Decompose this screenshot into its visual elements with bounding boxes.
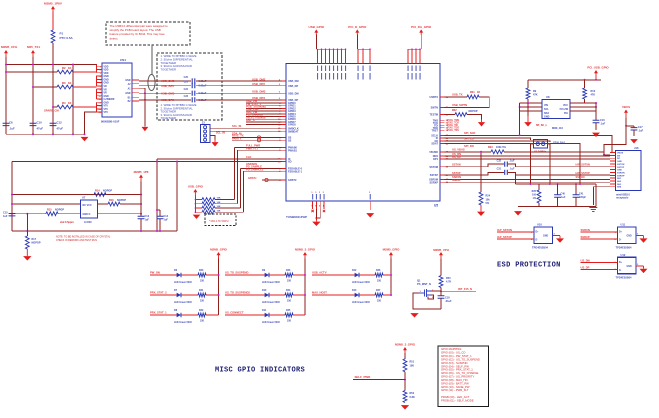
wire gpio (246, 116, 282, 118)
wire U7 row2 right (98, 213, 142, 215)
resistor R2 1K (6, 71, 57, 73)
wire PARITY (232, 139, 282, 141)
wire (604, 118, 626, 155)
wire (206, 314, 219, 316)
wire (428, 295, 434, 299)
connector J3 header (200, 125, 209, 143)
wire USB pair USB_DM2 (139, 80, 191, 82)
ground (81, 137, 89, 141)
resistor R16 NOPOP (108, 202, 120, 206)
wire header pin2 long (209, 129, 211, 131)
svg-text:1uF: 1uF (3, 215, 8, 218)
svg-text:USB_DP2: USB_DP2 (161, 84, 174, 88)
svg-text:GPIO MAPPING:: GPIO MAPPING: (441, 347, 462, 351)
svg-text:PWAB1: PWAB1 (288, 149, 298, 152)
svg-text:M2M5_VPH: M2M5_VPH (433, 248, 449, 252)
wire top bus (408, 48, 422, 50)
svg-text:C12: C12 (57, 121, 63, 125)
svg-text:SSTXM: SSTXM (429, 166, 438, 169)
pin stub (440, 151, 445, 153)
CN1 pin L10 (97, 95, 103, 97)
svg-text:LED Green 0603: LED Green 0603 (352, 282, 370, 284)
ground (480, 205, 482, 212)
svg-text:TOGETHER: TOGETHER (161, 116, 177, 120)
svg-text:IAP_SSTXN: IAP_SSTXN (576, 163, 591, 167)
svg-text:PRGB (00) - LED_ACT: PRGB (00) - LED_ACT (441, 395, 470, 399)
pin stub (440, 119, 445, 121)
wire US_DP (581, 269, 618, 271)
pin stub (282, 113, 287, 115)
wire (404, 372, 406, 391)
capacitor C21 0.01uF (192, 83, 195, 88)
wire vertical net3 (52, 65, 54, 135)
resistor R44 330 (285, 293, 293, 297)
wire gpio (246, 107, 282, 109)
resistor R41 330 (198, 293, 206, 297)
wire shield to chassis (593, 187, 610, 205)
wire (440, 288, 442, 292)
svg-text:USB_DP2: USB_DP2 (252, 82, 265, 86)
svg-text:GPIO (08) - MAX_HO: GPIO (08) - MAX_HO (441, 378, 468, 382)
resistor R22 NOPOP (455, 113, 467, 117)
svg-text:M2M5_3_GPIO: M2M5_3_GPIO (395, 342, 416, 346)
svg-text:PRX_STAT_2: PRX_STAT_2 (150, 291, 167, 295)
svg-text:330: 330 (200, 300, 205, 303)
svg-text:M2M5_3_GPIO: M2M5_3_GPIO (295, 248, 316, 252)
capacitor C13 1uF (138, 216, 145, 218)
svg-text:CLK: CLK (246, 155, 251, 159)
wire (432, 290, 442, 292)
svg-text:6.8K: 6.8K (410, 396, 415, 399)
svg-text:0.2S8ERR: 0.2S8ERR (104, 99, 115, 101)
svg-text:LED Green 0603: LED Green 0603 (262, 282, 280, 284)
svg-text:M25_TX1: M25_TX1 (27, 45, 40, 49)
svg-text:ESD PROTECTION: ESD PROTECTION (497, 262, 561, 270)
svg-text:.1uF: .1uF (510, 168, 515, 171)
ground (630, 139, 638, 143)
wire (527, 103, 529, 116)
svg-text:SPARE_CM: SPARE_CM (44, 109, 59, 113)
capacitor series SSTXM (505, 162, 508, 167)
led D7 (177, 293, 181, 297)
pin stub (282, 137, 287, 139)
wire (553, 235, 561, 237)
svg-text:330: 330 (377, 280, 382, 283)
connector J16 pin 1 (610, 152, 616, 154)
svg-text:VTU: VTU (104, 106, 109, 108)
resistor R46 330 (375, 273, 383, 277)
chassis ground (589, 208, 597, 212)
svg-text:VTU: VTU (104, 112, 109, 114)
svg-text:SSTXP: SSTXP (430, 174, 439, 177)
resistor R15 NOPOP (46, 212, 58, 216)
pin stub (282, 110, 287, 112)
ground (142, 127, 149, 131)
svg-text:PW_ON: PW_ON (150, 271, 160, 275)
svg-text:DN: DN (617, 155, 621, 157)
wire vertical net1 (5, 57, 7, 134)
ic U10 TPD4E02B04 (534, 227, 553, 244)
svg-text:SCL: SCL (544, 108, 549, 111)
resistor R17 NOPOP (25, 236, 29, 249)
svg-text:SDA: SDA (544, 112, 549, 115)
svg-text:R41: R41 (199, 289, 204, 292)
wire rail right leg (595, 184, 597, 207)
wire row2 (12, 203, 81, 205)
svg-text:NOPOP: NOPOP (32, 242, 41, 245)
CN1 pin L14 (97, 108, 103, 110)
svg-text:VR: VR (104, 93, 108, 95)
wire USB pair USB_DM3 (139, 92, 191, 94)
wire top bus (357, 48, 370, 50)
wire CN1 pin15 branch (85, 112, 97, 134)
wire header pin3 (210, 136, 215, 140)
svg-text:LED Green 0603: LED Green 0603 (174, 322, 192, 324)
wire (508, 172, 610, 175)
svg-text:VDD: VDD (104, 66, 109, 68)
led D10 (265, 293, 269, 297)
svg-text:.1uF: .1uF (9, 127, 15, 131)
ground (401, 405, 409, 409)
svg-text:USB_ACTV: USB_ACTV (312, 271, 327, 275)
svg-text:SMBDAT: SMBDAT (288, 130, 299, 133)
resistor P1 PTC 0.5A (51, 30, 55, 43)
callout line (151, 45, 153, 75)
ic U7 oscillator (81, 200, 98, 218)
wire USB pair USB_DP2 (139, 85, 191, 87)
wire CN1 left pin group bus (96, 65, 98, 73)
svg-text:VBUSD: VBUSD (429, 151, 438, 154)
led D8 (177, 313, 181, 317)
svg-text:330: 330 (200, 320, 205, 323)
svg-text:VTU: VTU (104, 109, 109, 111)
wire long osc A (157, 158, 282, 160)
wire US_DN (581, 262, 618, 264)
svg-text:R15: R15 (47, 209, 52, 212)
svg-text:U7: U7 (82, 196, 86, 200)
wire (636, 265, 644, 267)
pin stub (440, 142, 445, 144)
svg-text:R46: R46 (376, 269, 381, 272)
wire riser (243, 171, 245, 212)
svg-text:SSTXN: SSTXN (617, 164, 625, 166)
svg-text:0.01uF: 0.01uF (199, 80, 207, 83)
svg-text:XO: XO (288, 161, 292, 164)
CN1 pin L7 (97, 85, 103, 87)
pin stub (282, 85, 287, 87)
svg-text:0.01uF: 0.01uF (199, 92, 207, 95)
svg-text:Q1: Q1 (417, 278, 421, 282)
svg-text:D13: D13 (352, 289, 357, 292)
wire (196, 99, 282, 101)
svg-text:SSRXP: SSRXP (581, 235, 590, 239)
svg-text:C31: C31 (497, 168, 502, 171)
pin stub (282, 107, 287, 109)
svg-text:IAP_SSTXP: IAP_SSTXP (497, 235, 512, 239)
svg-text:.01uF: .01uF (445, 300, 452, 303)
pin stub (282, 121, 287, 123)
svg-text:U11: U11 (621, 223, 626, 227)
wire (445, 97, 490, 107)
svg-text:VDD: VDD (104, 70, 109, 72)
wire (595, 123, 597, 130)
resistor R25 100 (538, 184, 540, 190)
no-connect circle (265, 178, 268, 181)
wire RATE_TX (232, 137, 282, 139)
pin stub (440, 137, 445, 139)
svg-text:US_DP: US_DP (581, 265, 590, 269)
svg-text:R42: R42 (199, 309, 204, 312)
wire bottom bus (6, 133, 85, 135)
wire (269, 274, 285, 276)
pin stub (440, 155, 445, 157)
pin stub (440, 106, 445, 108)
wire (383, 294, 391, 296)
svg-text:1K: 1K (68, 101, 71, 105)
wire gpio (246, 121, 282, 123)
wire (293, 274, 305, 276)
CN1 pin L9 (97, 91, 103, 93)
wire (196, 85, 282, 87)
ic U5 bottom pin thermal (370, 194, 371, 200)
wire pwab (235, 147, 282, 149)
resistor R4 1K (53, 106, 57, 108)
wire pin drop (369, 49, 371, 63)
no-connect X (311, 210, 313, 212)
svg-text:SSRXN: SSRXN (617, 172, 625, 174)
svg-text:1K: 1K (68, 66, 71, 70)
wire (194, 196, 196, 214)
svg-text:CHECK IN REWORK AND TEST RUN: CHECK IN REWORK AND TEST RUN (56, 239, 97, 242)
svg-text:R51: R51 (410, 361, 415, 364)
svg-text:GPIO (09) - BATT_PW: GPIO (09) - BATT_PW (441, 381, 469, 385)
pin stub (282, 170, 287, 172)
wire pin drop (407, 49, 409, 63)
pin stub (282, 124, 287, 126)
ground (214, 140, 216, 143)
wire flag vertical (140, 182, 142, 217)
wire (315, 209, 317, 220)
svg-text:TUSB8041PHP: TUSB8041PHP (286, 215, 307, 219)
svg-text:D10: D10 (262, 289, 267, 292)
svg-text:JTAG_TRS: JTAG_TRS (447, 129, 459, 132)
wire (52, 43, 54, 65)
svg-text:GPIO (07) - US_PRIORITY: GPIO (07) - US_PRIORITY (441, 375, 474, 379)
svg-text:receptacle: receptacle (616, 197, 629, 200)
svg-text:GRSTz: GRSTz (248, 176, 257, 180)
led D9 (265, 273, 269, 277)
CN1 pin L2 (97, 68, 103, 70)
resistor R14 NOPOP (94, 193, 106, 197)
svg-text:C22: C22 (184, 88, 189, 91)
wire U8 left pins (520, 102, 542, 104)
svg-text:C10: C10 (37, 121, 43, 125)
wire (206, 274, 219, 276)
wire rail (528, 79, 601, 81)
wire riser (240, 169, 242, 209)
pin stub (440, 124, 445, 126)
pin stub (440, 178, 445, 180)
wire (440, 259, 442, 276)
svg-text:GPIO (01) - PW_STAT_1: GPIO (01) - PW_STAT_1 (441, 354, 472, 358)
svg-text:PD_SAMPLE2: PD_SAMPLE2 (246, 167, 264, 171)
svg-text:M2M5_CFG: M2M5_CFG (1, 45, 18, 49)
svg-text:SSRXP: SSRXP (617, 175, 625, 177)
wire bus (304, 259, 306, 316)
wire IAP_SSTXN (497, 231, 534, 233)
no-connect X (323, 210, 325, 212)
svg-text:US_TO_SUSPEND: US_TO_SUSPEND (225, 271, 248, 275)
svg-text:330: 330 (287, 300, 292, 303)
svg-text:TESTM: TESTM (430, 114, 438, 117)
svg-text:J16: J16 (634, 146, 639, 150)
capacitor C14 1uF (157, 209, 160, 211)
svg-text:0.01uF: 0.01uF (199, 99, 207, 102)
svg-text:SS: SS (288, 139, 292, 142)
wire U8 right pins (570, 102, 596, 104)
svg-text:D-: D- (536, 240, 539, 242)
pin stub (282, 92, 287, 94)
capacitor C15 1uF (11, 206, 13, 213)
pin stub (282, 118, 287, 120)
wire (420, 35, 422, 50)
pin stub (440, 140, 445, 142)
svg-text:47K: 47K (533, 93, 538, 96)
wire (150, 294, 177, 296)
svg-text:US_CONNECT: US_CONNECT (225, 311, 244, 315)
ic U5 TUSB8041PHP body (286, 64, 440, 202)
wire long osc B (12, 161, 282, 163)
wire (150, 274, 177, 276)
svg-text:C32: C32 (497, 160, 502, 163)
svg-text:GND: GND (125, 80, 130, 82)
wire (26, 214, 28, 236)
svg-text:SDAT: SDAT (431, 143, 438, 146)
svg-text:VCC: VCC (563, 104, 568, 107)
CN1 pin L3 (97, 72, 103, 74)
svg-text:330: 330 (287, 320, 292, 323)
wire (626, 125, 634, 127)
svg-text:PRX_STAT_1: PRX_STAT_1 (150, 311, 167, 315)
connector J16 pin 13 (610, 186, 616, 188)
wire pin drop (362, 49, 364, 63)
wire IAP_SSTXP (497, 238, 534, 240)
svg-text:U8: U8 (546, 95, 550, 99)
svg-text:IAP_SSTXN: IAP_SSTXN (497, 228, 512, 232)
svg-text:NOPOP: NOPOP (55, 209, 64, 212)
wire SSRXN (581, 231, 618, 233)
resistor R33 4.7K pull-up (195, 211, 202, 213)
svg-text:100k 5%: 100k 5% (496, 146, 507, 149)
svg-text:VIN: VIN (544, 104, 548, 107)
svg-text:GND: GND (125, 93, 130, 95)
svg-text:TRST: TRST (431, 129, 438, 132)
pin stub (282, 80, 287, 82)
pin stub (282, 116, 287, 118)
led D11 (265, 313, 269, 317)
svg-text:SSRXN: SSRXN (581, 228, 590, 232)
wire (413, 293, 441, 309)
led D6 (177, 273, 181, 277)
wire gpio (246, 118, 282, 120)
wire CN1 gnd branch (139, 88, 145, 126)
svg-text:SP_SC_L: SP_SC_L (536, 124, 548, 127)
svg-text:MISC GPIO INDICATORS: MISC GPIO INDICATORS (215, 367, 305, 375)
wire gpio (246, 105, 282, 107)
wire (269, 314, 285, 316)
resistor R31 4.7K pull-up (195, 203, 202, 205)
svg-text:R52: R52 (410, 392, 415, 395)
wire (225, 294, 265, 296)
ground (366, 213, 374, 217)
svg-text:GND: GND (543, 236, 548, 238)
wire (353, 379, 405, 381)
svg-text:GPIO (03) - SUSPND: GPIO (03) - SUSPND (441, 361, 467, 365)
svg-text:GND: GND (627, 266, 632, 268)
svg-text:USB_DM: USB_DM (288, 80, 299, 83)
svg-text:1K: 1K (68, 81, 71, 85)
wire fsdable (241, 168, 282, 170)
CN1 pin L11 (97, 98, 103, 100)
svg-text:SSTXN: SSTXN (452, 163, 461, 167)
resistor R3 1K (33, 86, 57, 88)
svg-text:INT_F15_N: INT_F15_N (458, 287, 472, 291)
wire pin drop (411, 49, 413, 63)
svg-text:SSRXN: SSRXN (576, 175, 585, 179)
wire GPS header SCL to U5 (210, 127, 282, 129)
wire pin drop (415, 49, 417, 63)
wire (120, 203, 141, 205)
svg-text:SSTXP: SSTXP (452, 171, 461, 175)
pin stub (440, 129, 445, 131)
ground (592, 133, 600, 137)
pin stub (440, 96, 445, 98)
svg-text:47uF: 47uF (37, 127, 44, 131)
svg-text:USB_DM3: USB_DM3 (161, 91, 175, 95)
wire (584, 99, 586, 103)
wire riser (237, 150, 239, 204)
svg-text:GPIO (04) - SELF_PW: GPIO (04) - SELF_PW (441, 364, 469, 368)
wire (52, 12, 54, 30)
connector J16 pin 12 (610, 183, 616, 185)
wire (636, 235, 644, 237)
pin stub (282, 149, 287, 151)
svg-text:FSDABLE-1: FSDABLE-1 (288, 170, 303, 173)
wire bottom rail (518, 206, 596, 208)
wire horizontal feed (6, 64, 97, 66)
svg-text:U12: U12 (621, 253, 626, 257)
wire (206, 294, 219, 296)
wire (527, 99, 529, 114)
svg-text:GRSTZ: GRSTZ (288, 179, 297, 182)
pin stub (440, 127, 445, 129)
wire USB pair USB_DP3 (139, 99, 191, 101)
svg-text:10k: 10k (486, 199, 491, 202)
CN1 pin L8 (97, 88, 103, 90)
wire (150, 314, 177, 316)
ground (410, 313, 418, 317)
svg-text:.1uF: .1uF (510, 160, 515, 163)
pin stub (440, 174, 445, 176)
resistor R51 10K (403, 359, 407, 372)
svg-text:SCL_IN: SCL_IN (232, 124, 241, 128)
wire (508, 164, 610, 167)
wire (584, 99, 586, 103)
svg-text:R47: R47 (376, 289, 381, 292)
svg-text:TPD4E02B04: TPD4E02B04 (532, 245, 549, 249)
svg-text:MAX_HOST: MAX_HOST (312, 291, 327, 295)
pin stub (282, 99, 287, 101)
